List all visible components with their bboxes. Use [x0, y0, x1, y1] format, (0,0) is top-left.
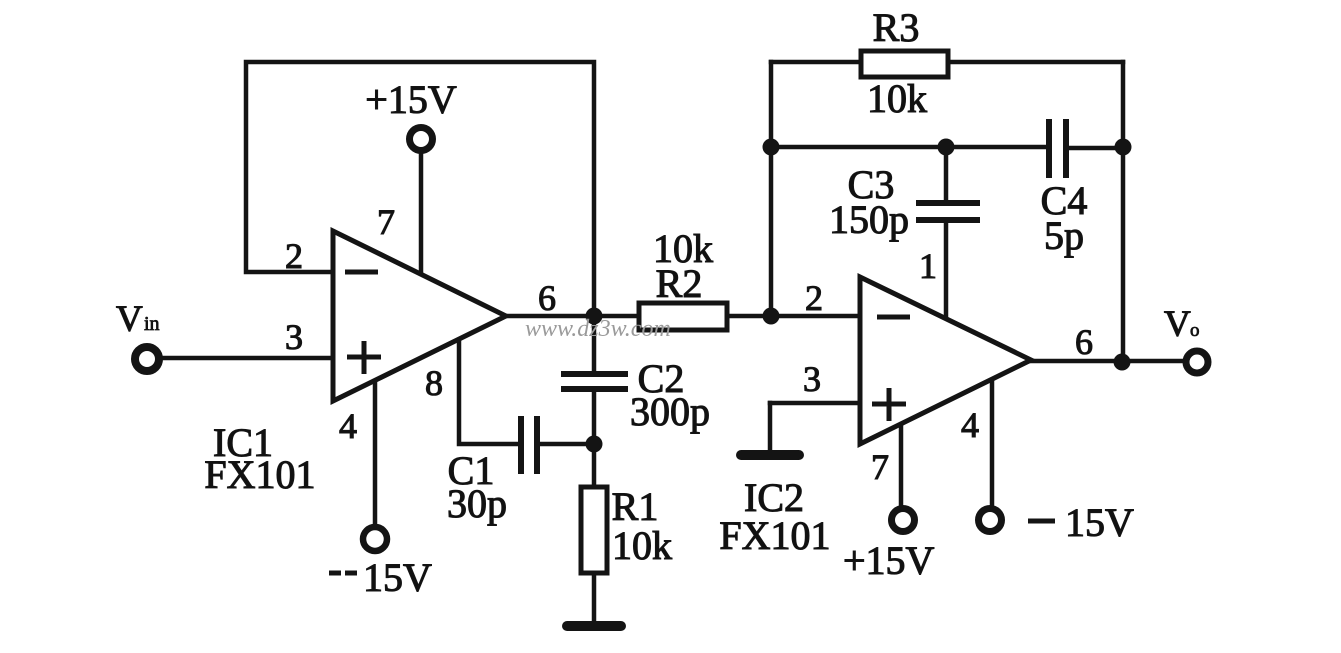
svg-text:V: V — [116, 299, 143, 340]
svg-text:10k: 10k — [867, 76, 927, 121]
svg-text:150p: 150p — [829, 197, 909, 242]
svg-text:5p: 5p — [1044, 213, 1084, 258]
svg-text:15V: 15V — [1065, 500, 1134, 545]
svg-text:www.dz3w.com: www.dz3w.com — [525, 316, 671, 342]
svg-text:6: 6 — [538, 278, 556, 318]
svg-text:3: 3 — [803, 359, 821, 399]
svg-text:6: 6 — [1075, 322, 1093, 362]
svg-text:1: 1 — [919, 246, 937, 286]
svg-text:R3: R3 — [873, 5, 920, 50]
svg-text:30p: 30p — [447, 481, 507, 526]
svg-text:2: 2 — [285, 236, 303, 276]
svg-text:15V: 15V — [363, 555, 432, 600]
svg-text:V: V — [1164, 304, 1191, 345]
svg-text:in: in — [144, 313, 160, 335]
svg-text:+15V: +15V — [843, 538, 935, 583]
svg-text:7: 7 — [377, 202, 395, 242]
svg-text:10k: 10k — [612, 523, 672, 568]
svg-text:2: 2 — [805, 278, 823, 318]
svg-text:o: o — [1190, 320, 1200, 341]
svg-text:FX101: FX101 — [204, 452, 315, 497]
svg-text:4: 4 — [339, 406, 357, 446]
svg-text:300p: 300p — [630, 389, 710, 434]
svg-text:FX101: FX101 — [719, 513, 830, 558]
svg-text:+15V: +15V — [365, 77, 457, 122]
svg-text:7: 7 — [871, 447, 889, 487]
svg-text:8: 8 — [425, 363, 443, 403]
svg-text:4: 4 — [961, 405, 979, 445]
svg-text:R2: R2 — [656, 261, 703, 306]
svg-text:3: 3 — [285, 317, 303, 357]
